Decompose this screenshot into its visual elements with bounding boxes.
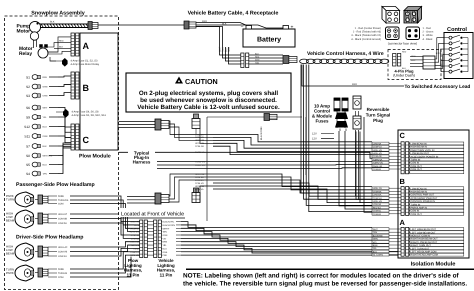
svg-text:WHT: WHT [255,59,260,62]
svg-text:Motor: Motor [17,29,31,35]
svg-text:1 - Red: 1 - Red [423,27,432,30]
svg-text:ORN: ORN [43,135,48,138]
svg-text:PARK: PARK [6,271,14,275]
svg-text:HIGH-4C: HIGH-4C [58,246,68,249]
svg-text:Vehicle Battery Cable is 12-vo: Vehicle Battery Cable is 12-volt unfused… [137,104,280,111]
svg-text:LOW-VA: LOW-VA [373,142,382,145]
svg-text:LOW-BA: LOW-BA [195,179,204,182]
svg-text:Harness: Harness [133,160,151,165]
svg-text:TURN-M: TURN-M [131,244,140,247]
svg-text:Reversible: Reversible [367,107,390,112]
svg-text:TURN-VA: TURN-VA [373,158,383,161]
svg-text:COM-YB: COM-YB [130,221,139,224]
svg-text:GRN: GRN [373,238,378,241]
svg-text:HIGH-VD: HIGH-VD [195,142,205,145]
svg-text:RED: RED [43,76,48,79]
svg-text:Vehicle Battery Cable, 4 Recep: Vehicle Battery Cable, 4 Receptacle [188,11,279,17]
svg-text:TURN: TURN [6,198,14,202]
svg-text:BLACK/YEL: BLACK/YEL [163,221,175,224]
svg-text:11 Pin: 11 Pin [127,272,140,277]
svg-text:12V: 12V [312,133,317,136]
svg-text:1 - Red (Center Power): 1 - Red (Center Power) [355,27,381,30]
svg-text:Snowplow Assembly: Snowplow Assembly [31,11,84,17]
svg-text:Vehicle Control Harness, 4 Wir: Vehicle Control Harness, 4 Wire [307,51,384,57]
svg-text:11 Pin: 11 Pin [160,272,173,277]
svg-text:HIGH-CD: HIGH-CD [373,187,383,190]
svg-text:COM-AB: COM-AB [195,145,204,148]
svg-text:COM-BK: COM-BK [195,176,204,179]
svg-text:TURN-DS: TURN-DS [129,231,139,234]
svg-text:2 - Green: 2 - Green [423,31,434,34]
svg-text:2 - Red (Twisted with #3): 2 - Red (Twisted with #3) [353,31,381,34]
svg-text:TURN-VN: TURN-VN [195,160,205,163]
svg-text:Battery: Battery [257,37,281,44]
svg-text:−: − [241,25,244,31]
svg-text:A: A [400,218,406,227]
svg-text:BEAM: BEAM [6,252,15,256]
svg-text:COM-VU: COM-VU [373,146,382,149]
svg-text:HIGH-VD: HIGH-VD [373,152,383,155]
svg-text:RED: RED [228,47,231,52]
svg-text:S9: S9 [26,115,30,119]
svg-text:Isolation Module: Isolation Module [411,261,456,268]
svg-text:BLACK/ORN: BLACK/ORN [163,224,176,227]
svg-text:BLK: BLK [255,53,259,56]
svg-text:COM-MB: COM-MB [130,254,139,257]
svg-text:On 2-plug electrical systems,: On 2-plug electrical systems, plug cover… [139,90,279,97]
svg-text:Control: Control [447,26,467,33]
svg-text:Plow Module: Plow Module [79,154,111,160]
svg-text:Passenger-Side Plow Headlamp: Passenger-Side Plow Headlamp [16,182,95,188]
svg-text:WHT: WHT [219,46,222,52]
svg-text:LOW-5A: LOW-5A [131,237,140,240]
svg-text:RED-BJ: RED-BJ [373,206,381,209]
svg-text:VIO: VIO [163,237,167,240]
svg-text:LOW-4A: LOW-4A [58,255,67,258]
svg-text:RED: RED [402,51,407,54]
svg-text:RED: RED [59,39,64,42]
svg-text:A: A [83,41,90,51]
svg-text:Relay: Relay [19,51,32,57]
svg-text:BEAM: BEAM [6,219,15,223]
svg-text:Fuses: Fuses [315,119,329,124]
svg-text:GRN: GRN [411,55,416,58]
svg-text:COM-VU: COM-VU [195,182,204,185]
svg-text:WHT/YEL: WHT/YEL [43,154,54,157]
svg-text:WHT/T: WHT/T [163,227,170,230]
svg-text:(Under Dash): (Under Dash) [393,74,415,78]
svg-text:GRN: GRN [163,234,168,237]
svg-text:VIO: VIO [373,241,377,244]
svg-text:S8: S8 [26,154,30,158]
svg-text:TAN: TAN [163,231,168,234]
svg-text:BRN: BRN [163,241,168,244]
svg-text:TAN: TAN [222,47,225,52]
svg-text:B: B [400,177,406,186]
svg-text:LOW-VA: LOW-VA [373,203,382,206]
svg-text:S11: S11 [24,134,30,138]
svg-text:TAN: TAN [373,231,378,234]
svg-text:HIGH-57: HIGH-57 [131,227,140,230]
svg-text:TURN-DS: TURN-DS [58,199,69,202]
svg-text:PARK: PARK [58,268,65,271]
svg-text:LOW-VA: LOW-VA [195,188,204,191]
svg-text:Located at Front of Vehicle: Located at Front of Vehicle [121,212,184,218]
svg-text:COM-YB: COM-YB [58,250,68,253]
svg-text:BLK: BLK [222,23,227,26]
svg-text:Driver-Side Plow Headlamp: Driver-Side Plow Headlamp [16,235,83,241]
svg-text:S7: S7 [26,144,30,148]
svg-text:4 - Black: 4 - Black [423,38,434,41]
svg-text:WHT: WHT [411,59,416,62]
svg-text:TAN: TAN [255,62,259,65]
svg-text:BRN: BRN [373,244,378,247]
svg-text:PARK-VR: PARK-VR [373,165,383,168]
svg-text:RED: RED [352,83,357,86]
svg-text:HIGH-VB: HIGH-VB [195,139,205,142]
svg-text:Turn Signal: Turn Signal [366,113,390,118]
svg-text:BLK: BLK [50,21,55,24]
svg-text:S2: S2 [26,85,30,89]
svg-text:BLK/ORN: BLK/ORN [373,234,383,237]
svg-text:BLACK/ORN: BLACK/ORN [260,126,263,140]
svg-text:TURN-VA: TURN-VA [195,151,205,154]
svg-text:S12: S12 [24,125,30,129]
svg-text:RED: RED [255,56,260,59]
svg-text:4 Amp Fuse S5, S9, S10, S11: 4 Amp Fuse S5, S9, S10, S11 [72,114,107,117]
svg-text:HIGH-4C: HIGH-4C [130,241,139,244]
svg-text:BLU: BLU [373,250,378,253]
svg-text:NOTE: Labeling shown (left and: NOTE: Labeling shown (left and right) is… [183,273,460,280]
svg-text:COM: COM [58,202,63,205]
svg-text:S6: S6 [26,106,30,110]
svg-text:COM-YD: COM-YD [130,251,139,254]
svg-text:COM-0B: COM-0B [131,234,140,237]
svg-text:(connector face view): (connector face view) [388,42,417,46]
svg-text:S4: S4 [26,172,30,176]
svg-text:the vehicle. The reversible tu: the vehicle. The reversible turn signal … [183,281,467,288]
svg-text:PARK-VR: PARK-VR [195,164,205,167]
svg-text:ORN: ORN [43,94,48,97]
svg-text:GRN: GRN [43,85,48,88]
svg-text:4 - Black (Control Ground): 4 - Black (Control Ground) [351,38,381,41]
svg-text:TURN-M: TURN-M [58,272,67,275]
svg-text:S3: S3 [26,94,30,98]
svg-text:B: B [83,83,90,93]
svg-text:4 Amp Fuse Motor Relay: 4 Amp Fuse Motor Relay [71,63,100,66]
svg-text:BLU: BLU [43,163,48,166]
svg-text:COM-0B: COM-0B [58,217,67,220]
svg-text:PARK: PARK [133,247,139,250]
svg-text:COM-BL: COM-BL [373,210,382,213]
svg-text:C: C [400,131,406,140]
svg-text:WHT: WHT [373,228,379,231]
svg-text:COM-AB: COM-AB [373,155,382,158]
svg-text:BLU: BLU [163,247,168,250]
svg-text:12V: 12V [312,138,317,141]
svg-text:WHT: WHT [43,106,49,109]
svg-text:BLU: BLU [43,125,48,128]
svg-text:C: C [83,135,90,145]
svg-text:GL-DORN: GL-DORN [373,254,384,257]
svg-text:RED: RED [202,20,207,23]
svg-text:LOW-5A: LOW-5A [58,222,67,225]
svg-text:Plug: Plug [373,118,383,123]
svg-text:CAUTION: CAUTION [185,77,218,86]
svg-text:BLK: BLK [225,47,228,52]
svg-text:To Switched Accessory Lead: To Switched Accessory Lead [405,84,471,90]
svg-text:S1: S1 [26,75,30,79]
svg-text:COM: COM [134,224,139,227]
svg-text:COM OUT: COM OUT [411,213,423,216]
svg-text:BLK: BLK [59,46,64,49]
svg-text:3 - White: 3 - White [423,34,434,37]
svg-text:HIGH-57: HIGH-57 [58,213,68,216]
svg-text:COM-BJ: COM-BJ [373,213,381,216]
svg-text:COM-BJ: COM-BJ [373,168,381,171]
svg-text:HIGH-CD: HIGH-CD [195,173,205,176]
svg-text:RIGHT HEADLAMP COM: RIGHT HEADLAMP COM [411,254,438,257]
svg-text:HIGH-VB: HIGH-VB [373,200,383,203]
svg-text:TAN: TAN [43,172,48,175]
svg-text:be used whenever snowplow is d: be used whenever snowplow is disconnecte… [140,97,277,104]
svg-text:COM-VU: COM-VU [373,197,382,200]
svg-text:HIGH-VB: HIGH-VB [373,149,383,152]
svg-text:BLK: BLK [43,145,48,148]
svg-text:COM: COM [58,276,63,279]
svg-text:GRA: GRA [163,251,168,254]
svg-text:TURN-VN: TURN-VN [373,162,383,165]
svg-text:COM-VU: COM-VU [195,136,204,139]
svg-text:+: + [291,25,294,31]
svg-text:LOW-VA: LOW-VA [195,133,204,136]
svg-text:3 - Black (Twisted with #2): 3 - Black (Twisted with #2) [351,34,381,37]
svg-text:S5: S5 [26,163,30,167]
svg-text:PARK: PARK [58,195,65,198]
svg-text:LOW-BA: LOW-BA [373,194,382,197]
svg-text:COM-BK: COM-BK [373,190,382,193]
svg-text:PNK: PNK [163,254,168,257]
